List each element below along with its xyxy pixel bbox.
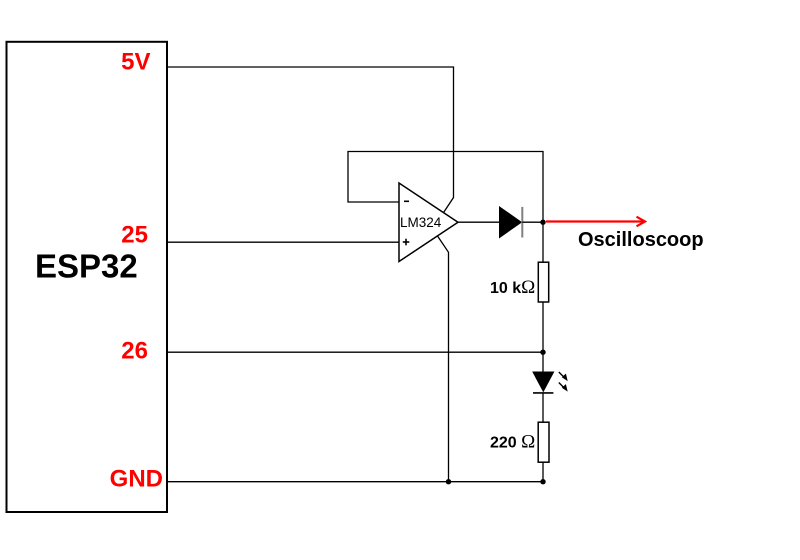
- wire resistor R1 to node B: [542, 302, 544, 372]
- wire GND from ESP32: [167, 481, 544, 483]
- ESP32 block U2: [7, 42, 168, 512]
- wire feedback from inverting input to output node: [348, 152, 543, 223]
- svg-text:ESP32: ESP32: [35, 248, 138, 285]
- oscilloscope probe red arrow: [546, 217, 645, 227]
- diode D1 cathode bar: [521, 207, 523, 238]
- LED D2 light arrow 2: [559, 383, 568, 392]
- wire node A down to resistor R1: [542, 222, 544, 262]
- wire op-amp V- lead to ground rail: [438, 236, 449, 482]
- LED D2 light arrow 1: [559, 372, 568, 381]
- svg-text:5V: 5V: [121, 49, 150, 76]
- op-amp non-inverting input marker +: [403, 239, 410, 246]
- svg-text:220 Ω: 220 Ω: [490, 432, 535, 453]
- ground node junction dot below R2: [540, 479, 545, 484]
- op-amp U1: [399, 183, 458, 262]
- wire 25 to op-amp non-inverting input: [167, 241, 399, 243]
- svg-text:10 kΩ: 10 kΩ: [490, 277, 535, 298]
- node B junction dot: [540, 350, 545, 355]
- diode D1: [500, 207, 522, 238]
- wire LED to resistor R2: [542, 393, 544, 422]
- wire diode cathode to node A: [522, 221, 543, 223]
- wire resistor R2 to ground rail: [542, 462, 544, 482]
- svg-text:26: 26: [121, 338, 148, 365]
- LED D2 cathode bar: [533, 392, 553, 394]
- ground node junction dot at op-amp V-: [446, 479, 451, 484]
- wire 26 to node B: [167, 351, 543, 353]
- resistor R2 220 body: [538, 422, 549, 462]
- resistor R1 10k body: [538, 262, 548, 302]
- svg-text:LM324: LM324: [400, 215, 442, 230]
- node A junction dot: [540, 220, 545, 225]
- wire 5V from ESP32 to op-amp V+: [167, 67, 454, 213]
- LED D2: [533, 372, 554, 391]
- svg-text:25: 25: [121, 222, 148, 249]
- op-amp inverting input marker -: [404, 200, 409, 202]
- svg-text:Oscilloscoop: Oscilloscoop: [578, 229, 704, 251]
- wire op-amp output to diode anode: [458, 221, 500, 223]
- svg-text:GND: GND: [110, 466, 163, 493]
